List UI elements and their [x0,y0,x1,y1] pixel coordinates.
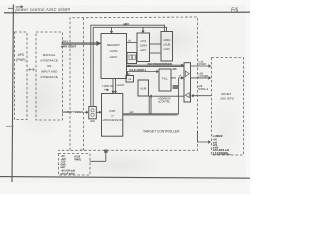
svg-text:INTERFACE: INTERFACE [41,75,58,79]
svg-text:GND: GND [61,164,66,166]
svg-text:udd uP uddd: udd uP uddd [61,173,76,175]
svg-text:OR: OR [47,64,52,68]
svg-text:(LOWER T SIGNAL: (LOWER T SIGNAL [62,111,84,114]
svg-text:LADDER: LADDER [213,135,223,138]
svg-text:APL: APL [172,68,177,71]
svg-text:Mo -- .: Mo -- . [80,149,87,151]
svg-text:PWR): PWR) [75,159,81,161]
svg-text:uAPL: uAPL [140,48,147,52]
svg-text:APS: APS [18,53,24,57]
svg-text:uTONER: uTONER [199,75,209,78]
svg-text:udd: udd [129,110,134,114]
svg-text:ARAY: ARAY [110,55,118,59]
svg-text:NORM: NORM [199,63,206,66]
svg-text:(par.): (par.) [62,39,68,43]
svg-text:uAB: uAB [198,85,203,88]
svg-text:uPROCESSOR: uPROCESSOR [102,118,122,122]
svg-text:udd/uP: udd/uP [117,84,125,87]
svg-text:(AUX: (AUX [75,155,81,158]
svg-text:uTX1: uTX1 [140,39,147,43]
svg-text:DECODER/DRIVER: DECODER/DRIVER [148,62,172,66]
svg-text:INPUT AND: INPUT AND [41,70,58,74]
svg-text:+5V: +5V [213,140,218,142]
svg-text:WRT CONT: WRT CONT [61,45,76,49]
svg-text:udd: udd [61,167,66,169]
svg-text:or: or [111,114,114,118]
svg-text:uA: uA [179,74,182,77]
svg-text:INTERFACE: INTERFACE [41,59,58,63]
svg-text:-12V: -12V [61,162,66,164]
svg-text:TARGET CONTROLLER: TARGET CONTROLLER [143,130,180,134]
svg-text:uMK: uMK [90,120,95,123]
svg-text:+12V: +12V [61,159,67,161]
svg-text:HUB: HUB [140,87,146,91]
svg-text:(INK JETS): (INK JETS) [221,97,235,101]
svg-text:GATE: GATE [110,49,118,53]
svg-text:INKJET: INKJET [221,92,232,96]
svg-text:12864: 12864 [163,38,171,42]
svg-text:udd: udd [213,142,218,144]
svg-text:T.DRW AM: T.DRW AM [102,85,113,88]
svg-text:uAUB: uAUB [163,43,170,47]
svg-text:uCONTRL: uCONTRL [158,100,171,104]
svg-text:F/6: F/6 [231,7,238,13]
svg-text:MEMORY: MEMORY [107,43,120,47]
svg-text:A/B LINES udd: A/B LINES udd [213,149,230,152]
svg-text:power control ASIC 6/68#: power control ASIC 6/68# [15,7,71,12]
svg-text:+5V: +5V [61,156,66,158]
svg-text:DSP: DSP [110,109,116,113]
svg-text:NORM ud: NORM ud [198,89,209,91]
svg-text:FILL: FILL [162,77,168,81]
svg-text:MANUAL: MANUAL [43,53,56,57]
svg-text:+5V AUX udd: +5V AUX udd [61,170,76,173]
svg-text:(PWR): (PWR) [16,58,26,62]
svg-text:uAP1: uAP1 [164,47,171,51]
svg-text:12864: 12864 [140,44,148,48]
svg-text:uP#: uP# [123,23,129,27]
svg-text:(CLK ADDR 4: (CLK ADDR 4 [130,68,147,72]
